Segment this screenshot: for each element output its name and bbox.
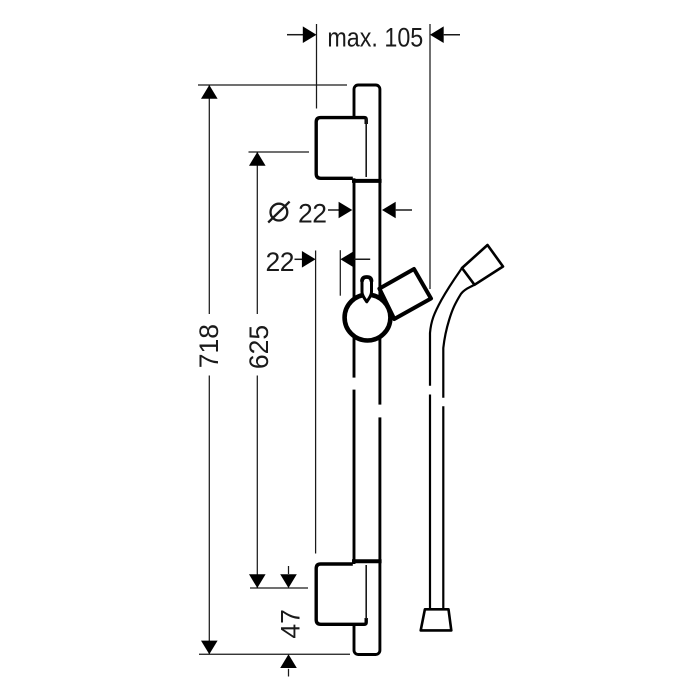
dimension max. 105 [287, 23, 460, 289]
bar break gap right edge [377, 405, 382, 418]
svg-text:22: 22 [266, 247, 294, 277]
extension line lower bracket (625 / 47 dims) [250, 587, 308, 589]
extension line bottom of bar (718 dim) [199, 653, 350, 655]
hose conical nut (top, at hand shower) [462, 245, 503, 285]
hand shower holder block [379, 269, 431, 319]
slider clamp pin [362, 277, 372, 302]
dimension 22 (wall offset) [266, 247, 371, 553]
svg-text:625: 625 [244, 325, 274, 369]
hose end cap (bottom) [421, 609, 452, 630]
svg-text:22: 22 [298, 198, 326, 228]
extension line upper bracket (625 dim) [249, 151, 310, 153]
wall bar (vertical rail) [354, 85, 380, 655]
slider wheel [345, 295, 391, 341]
bar joint line above lower bracket [352, 559, 382, 563]
upper wall bracket [316, 118, 366, 179]
dimension diameter 22 [268, 198, 412, 228]
bar break gap left edge [351, 378, 356, 390]
svg-text:47: 47 [276, 609, 306, 638]
svg-text:718: 718 [194, 324, 224, 368]
dimension 625 [244, 152, 274, 588]
svg-text:max. 105: max. 105 [327, 23, 423, 53]
dimension 718 [194, 85, 224, 654]
dimension 47 [276, 566, 306, 677]
lower wall bracket [316, 564, 366, 624]
bar joint line below upper bracket [352, 179, 382, 183]
extension line top of bar (718 dim) [198, 84, 347, 86]
shower hose [430, 268, 474, 609]
